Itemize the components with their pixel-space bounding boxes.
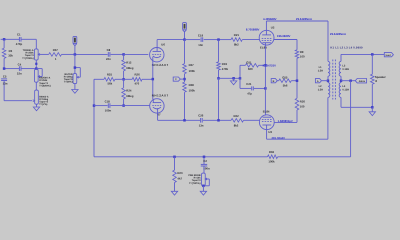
svg-text:R27: R27	[189, 63, 195, 67]
svg-text:1.5H: 1.5H	[318, 88, 323, 91]
svg-text:R3: R3	[9, 49, 13, 53]
capacitor C19	[200, 37, 202, 42]
svg-text:C26: C26	[198, 114, 204, 118]
capacitor C8	[111, 53, 124, 55]
node row R28	[183, 119, 186, 122]
svg-text:load: load	[386, 54, 391, 57]
transformer core	[332, 60, 334, 100]
svg-text:PSB 8003B: PSB 8003B	[188, 174, 200, 177]
wire C26 row	[203, 119, 231, 121]
node row x218	[217, 119, 220, 122]
node P5 bottom	[202, 185, 205, 188]
svg-text:R36: R36	[269, 150, 275, 154]
ground mid	[233, 78, 235, 81]
pentode U2 EL84	[259, 30, 274, 45]
svg-text:47µ: 47µ	[247, 91, 252, 95]
resistor R19	[218, 40, 220, 62]
svg-text:100n: 100n	[105, 109, 112, 113]
capacitor C2	[203, 157, 205, 165]
svg-text:A: A	[317, 80, 319, 83]
resistor R24	[123, 79, 125, 88]
svg-text:T={TW1%}: T={TW1%}	[189, 182, 201, 185]
svg-text:R22: R22	[234, 114, 240, 118]
resistor Speaker 8	[371, 74, 375, 84]
wire volume to ground	[74, 84, 76, 90]
svg-text:29.64285mA: 29.64285mA	[330, 32, 346, 36]
svg-text:291.0244V: 291.0244V	[272, 136, 286, 140]
capacitor C5	[1, 78, 7, 80]
svg-text:22n: 22n	[106, 57, 111, 61]
wire cathode rail down	[264, 65, 266, 115]
wire volume rail	[74, 54, 76, 73]
svg-text:T={TRB%}: T={TRB%}	[22, 57, 33, 60]
wire secondary top	[341, 53, 384, 55]
svg-text:13n: 13n	[199, 123, 204, 127]
wire secondary CT to 4ohm	[341, 80, 355, 82]
triode U7	[150, 99, 164, 113]
resistor R23	[174, 157, 176, 170]
potentiometer P2 bass	[34, 69, 38, 82]
node primary CT	[327, 79, 330, 82]
svg-text:Taper=3: Taper=3	[192, 179, 201, 182]
svg-text:R20: R20	[300, 99, 306, 103]
potentiometer P1 treble	[34, 49, 38, 60]
wire speaker column	[371, 54, 373, 74]
resistor R12	[123, 54, 125, 59]
svg-text:29.64285mA: 29.64285mA	[296, 17, 312, 21]
node speaker top	[371, 53, 374, 56]
node C8 R12	[122, 53, 125, 56]
svg-text:13n: 13n	[198, 43, 203, 47]
svg-text:100k: 100k	[189, 69, 196, 73]
svg-text:Taper=8: Taper=8	[64, 78, 73, 81]
svg-text:NH12AX7: NH12AX7	[152, 94, 169, 98]
svg-text:R9: R9	[300, 50, 304, 54]
ground P5	[202, 186, 204, 192]
svg-text:EL84: EL84	[263, 110, 270, 114]
node volume wiper	[74, 66, 77, 69]
svg-text:13n: 13n	[3, 81, 8, 85]
svg-text:500: 500	[248, 67, 253, 71]
node U6 cathode R26	[152, 78, 155, 81]
svg-text:C8: C8	[107, 48, 111, 52]
flag A	[315, 79, 321, 83]
capacitor C4	[18, 66, 20, 71]
wire U2 g2	[274, 39, 297, 41]
svg-text:56k: 56k	[108, 82, 113, 86]
wire U6 cathode rail	[152, 57, 154, 99]
resistor R26	[132, 78, 142, 82]
svg-text:5k6: 5k6	[283, 84, 288, 88]
wire volume wiper loop	[75, 67, 80, 69]
svg-text:100k: 100k	[268, 159, 275, 163]
resistor R36	[268, 155, 278, 159]
svg-text:C5: C5	[3, 74, 7, 78]
wire grid U6	[124, 53, 149, 55]
svg-text:R37: R37	[53, 48, 59, 52]
svg-text:T={V%}: T={V%}	[39, 103, 47, 106]
wire U3 plate down	[266, 125, 268, 139]
svg-text:G51: G51	[246, 61, 252, 65]
svg-text:R24: R24	[126, 88, 132, 92]
wire NFB left rail	[93, 79, 95, 157]
flag IC	[173, 77, 180, 81]
ground pot P3	[36, 104, 38, 107]
svg-text:R28: R28	[189, 83, 195, 87]
wire U3 g2	[274, 121, 297, 123]
svg-text:R=250k: R=250k	[25, 52, 34, 55]
svg-text:B: B	[273, 80, 275, 83]
svg-text:G55: G55	[282, 76, 288, 80]
node plate row	[183, 38, 186, 41]
node IC	[183, 78, 186, 81]
svg-text:C2: C2	[203, 159, 207, 163]
capacitor C26	[200, 118, 202, 123]
flag B+ node 2	[183, 23, 187, 30]
node NFB R23	[173, 156, 176, 159]
node NFB tap	[349, 79, 352, 82]
wire P5 wiper loop	[205, 178, 209, 180]
svg-text:C18: C18	[105, 100, 111, 104]
svg-text:470p: 470p	[16, 42, 23, 46]
triode U6	[150, 48, 164, 62]
node NFB C2	[203, 156, 206, 159]
svg-text:C: C	[175, 78, 177, 81]
svg-text:R19: R19	[222, 62, 228, 66]
svg-text:R=10k: R=10k	[194, 177, 202, 180]
svg-text:U6: U6	[161, 42, 165, 46]
wire input top row	[1, 38, 19, 40]
wire secondary rail	[340, 54, 342, 61]
wire screen rail	[296, 40, 298, 50]
svg-text:R26: R26	[135, 72, 141, 76]
svg-text:EL84: EL84	[260, 46, 267, 50]
svg-text:C19: C19	[198, 33, 204, 37]
node tone mid	[35, 67, 38, 70]
resistor R22	[231, 119, 243, 123]
potentiometer P3	[35, 90, 39, 104]
svg-text:BILTER: BILTER	[64, 73, 72, 76]
svg-text:T={BAS%}: T={BAS%}	[39, 85, 51, 88]
wire U7 cathode	[157, 108, 159, 120]
pentode U3 EL84 mirrored	[259, 115, 274, 130]
svg-text:C4: C4	[18, 63, 22, 67]
flag 4ohm	[355, 79, 366, 83]
svg-text:1.680802µV: 1.680802µV	[278, 119, 293, 123]
wire U6 plate	[156, 40, 158, 52]
resistor R21	[231, 38, 242, 42]
node R19 ground row	[217, 77, 220, 80]
resistor R27	[184, 40, 186, 64]
wire NFB vertical	[350, 81, 352, 157]
node input junction	[3, 38, 6, 41]
node ground row right	[239, 77, 242, 80]
node R12 bottom	[122, 78, 125, 81]
resistor R3	[2, 48, 6, 58]
wire left rail	[3, 39, 5, 48]
wire R37 to volume node	[62, 53, 75, 55]
svg-text:4.495848V: 4.495848V	[263, 17, 277, 21]
node NFB C18	[93, 104, 96, 107]
wire bass wiper loop	[36, 68, 42, 70]
wire treble pot rail	[35, 39, 37, 49]
svg-text:4ohm: 4ohm	[359, 80, 365, 83]
svg-text:TR250K-A: TR250K-A	[23, 49, 34, 52]
svg-text:K1 L1 L2 L3 L4 0.9999: K1 L1 L2 L3 L4 0.9999	[330, 47, 363, 50]
node R24 C18	[122, 104, 125, 107]
resistor G51	[245, 64, 258, 68]
node volume top	[74, 53, 77, 56]
svg-text:196.6829V: 196.6829V	[277, 34, 291, 38]
node 22n row left	[3, 67, 6, 70]
resistor R20	[295, 98, 299, 110]
node C19 R19	[217, 38, 220, 41]
svg-text:22n: 22n	[17, 72, 22, 76]
svg-text:8k2: 8k2	[234, 43, 239, 47]
svg-text:R21: R21	[234, 33, 240, 37]
capacitor C18	[94, 105, 108, 107]
svg-text:0.12H: 0.12H	[342, 89, 349, 92]
node cathode G51	[264, 64, 267, 67]
svg-text:1.5H: 1.5H	[318, 70, 323, 73]
wire treble wiper to R37	[39, 53, 49, 55]
wire cathode left branch	[239, 65, 241, 88]
flag load	[384, 53, 393, 57]
svg-text:R25: R25	[107, 73, 113, 77]
flag B	[271, 79, 277, 83]
svg-text:U2: U2	[271, 26, 275, 30]
capacitor C21	[240, 87, 251, 89]
svg-text:Taper=3: Taper=3	[39, 82, 48, 85]
wire primary rail	[327, 21, 329, 61]
svg-text:U3: U3	[268, 130, 272, 134]
svg-text:6Meg: 6Meg	[126, 66, 133, 70]
svg-text:BS250K-A: BS250K-A	[39, 76, 50, 79]
ground R23	[174, 183, 176, 192]
svg-text:4k7: 4k7	[177, 177, 182, 181]
svg-text:100: 100	[300, 55, 305, 59]
resistor R37	[49, 53, 62, 57]
wire U2 plate	[265, 21, 267, 35]
node cathode C21	[264, 87, 267, 90]
potentiometer P4 volume	[73, 74, 77, 84]
svg-text:C21: C21	[246, 82, 252, 86]
inductor L2	[328, 83, 330, 98]
svg-text:33k: 33k	[8, 54, 13, 58]
resistor G55	[279, 79, 292, 83]
wire U2 cathode	[264, 43, 266, 66]
wire 22n row	[4, 68, 19, 70]
flag IN	[73, 36, 77, 43]
wire plate row right	[185, 39, 201, 41]
wire R25 row	[94, 78, 104, 80]
ground speaker	[371, 107, 373, 112]
capacitor C1	[18, 37, 20, 42]
svg-text:NH12AX7: NH12AX7	[152, 63, 169, 67]
resistor R28	[183, 82, 187, 92]
svg-text:6Meg: 6Meg	[126, 94, 133, 98]
svg-text:0.12H: 0.12H	[342, 68, 349, 71]
inductor L4	[339, 83, 341, 98]
node ground mid	[232, 77, 235, 80]
svg-text:R23: R23	[177, 171, 183, 175]
svg-text:8k2: 8k2	[234, 124, 239, 128]
wire secondary bottom	[341, 106, 372, 108]
node secondary CT	[340, 79, 343, 82]
svg-text:470k: 470k	[222, 67, 229, 71]
svg-text:470: 470	[135, 82, 140, 86]
node speaker bottom	[371, 106, 374, 109]
inductor L1	[328, 61, 330, 76]
wire NFB row	[94, 156, 268, 158]
node pot1 bottom	[35, 63, 37, 65]
svg-text:T={W%}: T={W%}	[64, 81, 73, 84]
svg-text:R12: R12	[126, 60, 132, 64]
resistor R25	[104, 78, 115, 82]
inductor L3	[339, 61, 341, 76]
wire ground row	[219, 77, 241, 79]
svg-text:8.705898V: 8.705898V	[246, 27, 260, 31]
potentiometer P5	[202, 173, 206, 186]
svg-text:R=1Meg: R=1Meg	[64, 76, 73, 79]
svg-text:100: 100	[300, 105, 305, 109]
node screen B	[296, 79, 299, 82]
resistor screen upper 100	[295, 50, 299, 59]
svg-text:R=250k: R=250k	[39, 79, 48, 82]
svg-text:Taper=3: Taper=3	[25, 54, 34, 57]
svg-text:100k: 100k	[189, 89, 196, 93]
svg-text:C1: C1	[17, 32, 21, 36]
svg-text:9.134725V: 9.134725V	[263, 63, 277, 67]
